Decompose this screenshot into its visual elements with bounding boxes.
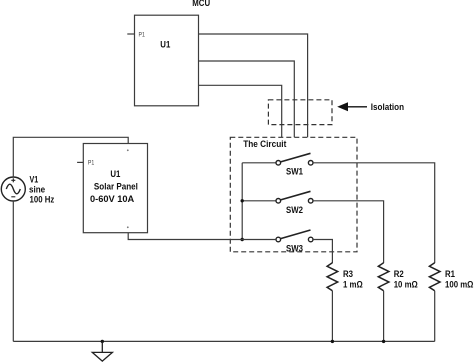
Isolation arrow	[337, 102, 367, 111]
pin P1 stub (solar panel)	[77, 161, 83, 163]
switch SW3	[276, 230, 313, 242]
svg-text:Isolation: Isolation	[371, 102, 404, 113]
switch SW1	[276, 153, 313, 165]
svg-text:SW1: SW1	[286, 166, 303, 177]
resistor R1	[429, 263, 440, 291]
wire bus to SW1 left	[242, 162, 276, 164]
wire R3 bottom	[331, 291, 333, 342]
svg-text:U1: U1	[160, 39, 170, 50]
junction SW2 bus dot	[241, 199, 244, 202]
polarity mark top pin	[127, 149, 129, 151]
svg-text:1 mΩ: 1 mΩ	[343, 279, 363, 290]
svg-text:R2: R2	[394, 269, 404, 280]
voltage source V1	[1, 177, 25, 201]
wire solar panel bottom pin to switch bus	[128, 233, 276, 240]
junction R3 bottom dot	[331, 340, 334, 343]
junction SW3 bus dot	[241, 238, 244, 241]
svg-text:R3: R3	[343, 269, 353, 280]
The Circuit dashed box	[230, 137, 357, 252]
switch SW2	[276, 191, 313, 203]
svg-text:Solar Panel: Solar Panel	[94, 181, 138, 192]
svg-text:The Circuit: The Circuit	[243, 139, 286, 149]
svg-text:100 mΩ: 100 mΩ	[445, 279, 474, 290]
svg-text:P1: P1	[139, 32, 145, 39]
wire MCU pin C to node above circuit	[199, 85, 282, 137]
wire bus to SW2 left	[242, 200, 276, 202]
wire SW3 to R3 top	[313, 240, 332, 264]
MCU U1 box	[135, 15, 199, 106]
junction R2 bottom dot	[382, 340, 385, 343]
wire V1 top to solar panel top pin	[13, 137, 128, 177]
polarity mark bottom pin	[127, 226, 129, 228]
junction ground dot	[101, 340, 104, 343]
svg-text:V1: V1	[30, 175, 39, 185]
wire R1 bottom	[434, 291, 436, 342]
wire bus vertical (switch input bus)	[241, 163, 243, 240]
wire MCU pin B to node above circuit	[199, 61, 295, 137]
ground	[92, 341, 112, 361]
resistor R3	[327, 263, 338, 291]
resistor R2	[378, 263, 389, 291]
solar panel U1 box	[83, 144, 147, 233]
svg-text:SW2: SW2	[286, 204, 303, 215]
svg-text:MCU: MCU	[192, 0, 210, 8]
svg-text:SW3: SW3	[286, 243, 303, 254]
pin P1 stub (MCU)	[127, 33, 134, 35]
svg-text:U1: U1	[110, 169, 120, 180]
Isolation dashed box	[268, 100, 332, 125]
svg-text:10 mΩ: 10 mΩ	[394, 279, 418, 290]
svg-text:0-60V 10A: 0-60V 10A	[90, 194, 135, 204]
wire V1 bottom to ground bus	[12, 201, 14, 341]
svg-text:P1: P1	[88, 160, 94, 167]
wire bottom ground bus	[13, 340, 434, 342]
wire SW2 to R2 top	[313, 201, 384, 263]
svg-text:100 Hz: 100 Hz	[30, 194, 55, 205]
wire MCU pin A to node above circuit	[199, 34, 308, 137]
wire SW1 to R1 top	[313, 163, 435, 263]
wire R2 bottom	[383, 291, 385, 342]
svg-text:R1: R1	[445, 269, 455, 280]
